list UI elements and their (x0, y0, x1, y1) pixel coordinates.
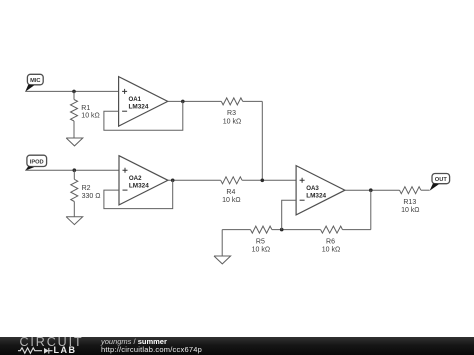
wire OA3 output (345, 189, 400, 191)
op-amp OA2 (119, 156, 168, 205)
wire IPOD node to OA2 + input (25, 169, 119, 171)
flag IPOD (25, 155, 46, 170)
label R2 330 Ohm (82, 185, 101, 200)
resistor R1 (71, 91, 78, 138)
flag MIC (25, 74, 43, 92)
svg-text:OA3: OA3 (306, 185, 319, 192)
wire OA2 output (168, 179, 221, 181)
svg-text:10 kΩ: 10 kΩ (222, 197, 240, 204)
wire OA2 feedback loop (104, 180, 173, 208)
wire ground drop vertical (221, 230, 223, 256)
junction OA2 output (171, 179, 175, 183)
svg-text:R1: R1 (81, 105, 90, 112)
CircuitLab logo text LAB (54, 345, 77, 355)
label R13 10 kOhm (401, 199, 419, 214)
svg-text:10 kΩ: 10 kΩ (252, 247, 270, 254)
resistor R6 (321, 226, 343, 233)
flag OUT (430, 174, 450, 191)
junction R1 top (72, 90, 76, 94)
svg-text:OA2: OA2 (129, 175, 142, 182)
svg-text:10 kΩ: 10 kΩ (401, 207, 419, 214)
label OA3 LM324 (306, 185, 326, 199)
op-amp OA3 (296, 166, 345, 215)
wire OA1 output (168, 100, 222, 102)
CircuitLab logo text CIRCUIT (20, 335, 84, 349)
wire OA3 feedback down (370, 190, 372, 229)
ground below R2 (66, 217, 83, 225)
ground below R1 (66, 138, 83, 146)
junction OA1 output (181, 100, 185, 104)
wire R5 to ground drop (222, 229, 250, 231)
wire MIC node to OA1 + input (25, 90, 118, 92)
label R6 10 kOhm (322, 238, 340, 253)
junction summing node (261, 179, 265, 183)
svg-text:10 kΩ: 10 kΩ (322, 247, 340, 254)
wire R6 to inverting node (272, 229, 321, 231)
footer url line (101, 345, 202, 354)
svg-text:10 kΩ: 10 kΩ (81, 113, 99, 120)
label R1 10 kOhm (81, 105, 99, 120)
svg-text:330 Ω: 330 Ω (82, 193, 101, 200)
op-amp OA1 (119, 77, 168, 127)
wire R4 to OA3 + input (242, 179, 296, 181)
svg-text:R3: R3 (227, 110, 236, 117)
ground below R5 (214, 256, 231, 264)
resistor R2 (71, 170, 78, 217)
footer bar (0, 337, 474, 355)
svg-text:R4: R4 (226, 189, 235, 196)
label R3 10 kOhm (223, 110, 241, 125)
svg-text:OUT: OUT (435, 177, 448, 183)
wire inverting node up to OA3 - input (282, 200, 296, 229)
svg-text:IPOD: IPOD (30, 159, 44, 165)
wire R13 to OUT node (421, 189, 430, 191)
footer author line youngms / summer (101, 337, 167, 346)
label OA2 LM324 (129, 175, 149, 189)
wire feedback to R6 (343, 229, 371, 231)
junction inverting node (280, 228, 284, 232)
junction OA3 output (369, 188, 373, 192)
svg-text:R6: R6 (326, 238, 335, 245)
wire vertical R3 down to summing node (261, 101, 263, 180)
svg-text:MIC: MIC (30, 78, 40, 84)
svg-text:R2: R2 (82, 185, 91, 192)
wire R3 to vertical (243, 100, 263, 102)
svg-text:LM324: LM324 (129, 183, 149, 190)
svg-text:R5: R5 (256, 238, 265, 245)
svg-text:R13: R13 (403, 199, 416, 206)
svg-text:LM324: LM324 (306, 192, 326, 199)
resistor R3 (221, 98, 242, 105)
CircuitLab logo waveform and diode (17, 345, 55, 355)
resistor R4 (221, 177, 242, 184)
junction R2 top (73, 168, 77, 172)
label R4 10 kOhm (222, 189, 240, 204)
svg-text:LM324: LM324 (129, 104, 149, 111)
wire OA1 feedback loop (104, 101, 183, 130)
svg-text:OA1: OA1 (129, 96, 142, 103)
label R5 10 kOhm (252, 238, 270, 253)
label OA1 LM324 (129, 96, 149, 110)
resistor R5 (251, 226, 272, 233)
svg-text:10 kΩ: 10 kΩ (223, 118, 241, 125)
resistor R13 (400, 187, 421, 194)
